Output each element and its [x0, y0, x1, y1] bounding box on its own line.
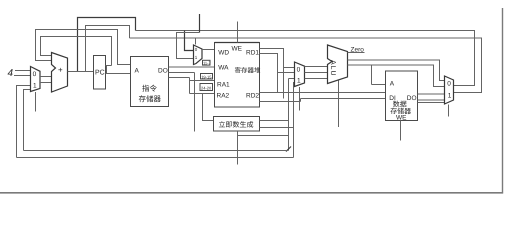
svg-text:指令: 指令	[142, 84, 157, 93]
svg-text:A: A	[135, 68, 140, 75]
svg-text:WE: WE	[232, 46, 243, 53]
svg-text:19-15: 19-15	[201, 74, 212, 79]
svg-text:RA2: RA2	[217, 93, 230, 100]
svg-text:1: 1	[448, 93, 452, 100]
svg-text:0: 0	[33, 71, 37, 78]
svg-text:0: 0	[297, 67, 301, 74]
svg-text:+: +	[58, 66, 63, 75]
svg-text:WD: WD	[218, 50, 229, 57]
svg-text:ALU: ALU	[329, 60, 336, 77]
svg-text:11-7: 11-7	[203, 60, 211, 65]
svg-text:0: 0	[447, 81, 451, 88]
svg-text:数据: 数据	[393, 101, 407, 109]
svg-text:WA: WA	[218, 65, 229, 72]
svg-text:DO: DO	[158, 68, 168, 75]
svg-text:1: 1	[33, 83, 37, 90]
svg-text:1: 1	[297, 78, 301, 85]
svg-text:RD2: RD2	[246, 93, 259, 100]
svg-text:RA1: RA1	[217, 82, 230, 89]
svg-text:寄存器堆: 寄存器堆	[235, 67, 262, 75]
svg-text:存储器: 存储器	[139, 95, 162, 104]
svg-text:DO: DO	[407, 95, 417, 102]
svg-text:PC: PC	[95, 70, 105, 77]
svg-text:A: A	[390, 81, 395, 88]
svg-text:立即数生成: 立即数生成	[219, 121, 254, 129]
svg-text:RD1: RD1	[246, 50, 259, 57]
svg-text:24-20: 24-20	[201, 85, 212, 90]
svg-text:WE: WE	[396, 115, 407, 122]
svg-text:4: 4	[8, 68, 14, 79]
